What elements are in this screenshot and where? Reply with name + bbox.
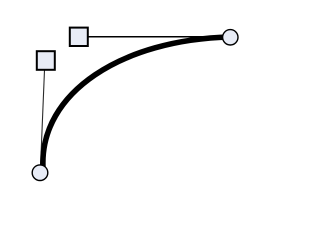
endpoint P0 (bottom-left circle) — [32, 165, 48, 181]
control square C2 — [70, 28, 88, 46]
handle line from control square C1 to endpoint P0 — [40, 70, 44, 170]
endpoint P1 (top-right circle) — [223, 30, 238, 45]
bezier curve — [43, 37, 230, 168]
handle line from control square C2 to endpoint P1 — [88, 36, 228, 38]
control square C1 — [37, 51, 55, 70]
